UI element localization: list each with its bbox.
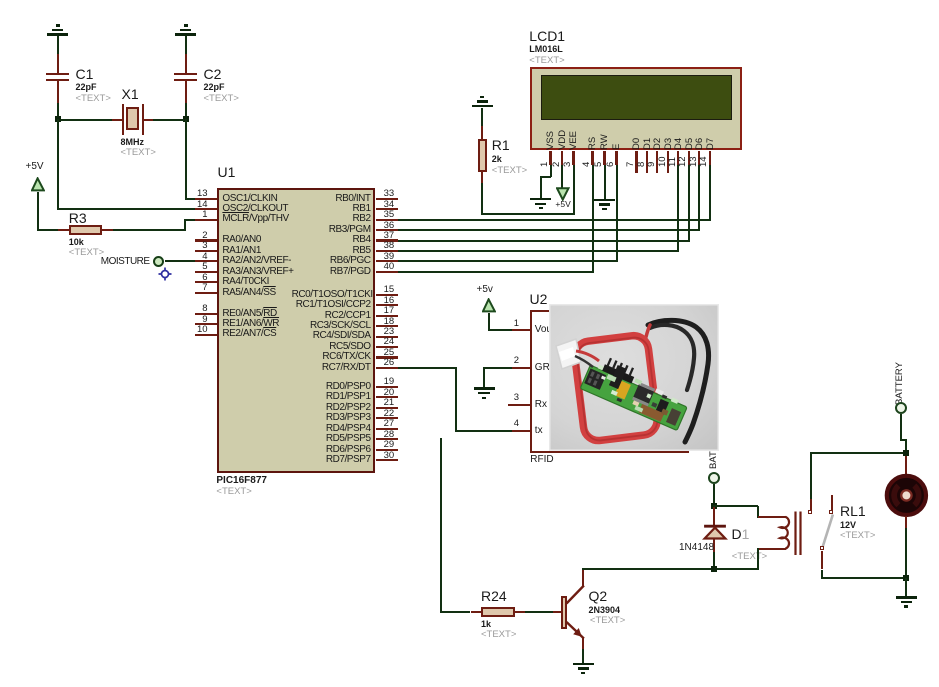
wire (698, 165, 700, 232)
lcd pin stubs and numbers (549, 151, 551, 165)
pin 35 (RB2) (376, 219, 398, 221)
pin 39 (RB6/PGC) (376, 260, 398, 262)
wire (185, 119, 187, 199)
terminal BAT (708, 451, 719, 469)
wire (688, 165, 690, 242)
wire (57, 208, 195, 210)
crystal X1 (112, 119, 122, 121)
wire (165, 260, 195, 262)
pin 25 (RC6/TX/CK) (376, 356, 398, 358)
wire (905, 578, 907, 596)
pin 6 (RA4/T0CKI) (195, 281, 217, 283)
resistor R1 (481, 126, 483, 139)
capacitor C1 (57, 54, 59, 73)
node (D1 top) (711, 503, 717, 509)
power +5V (26, 161, 44, 172)
rfid U2 pins (512, 329, 530, 331)
pin 9 (RE1/AN6/WR) (195, 323, 217, 325)
wire (757, 506, 759, 518)
pin 27 (RD4/PSP4) (376, 428, 398, 430)
node (C2/X1 junction) (183, 116, 189, 122)
wire (440, 438, 442, 613)
wire (713, 552, 715, 569)
terminal MOISTURE (101, 256, 150, 267)
capacitor C2 (185, 54, 187, 73)
pin 8 (RE0/AN5/RD) (195, 313, 217, 315)
resistor R24 (471, 611, 482, 613)
pin 29 (RD6/PSP6) (376, 449, 398, 451)
wire (57, 119, 59, 209)
wire (RB6 to LCD E) (398, 260, 618, 262)
wire (905, 440, 907, 453)
ground (LCD RW) (594, 199, 615, 201)
pin 24 (RC5/SDO) (376, 346, 398, 348)
wire (757, 548, 759, 570)
pin 21 (RD2/PSP2) (376, 407, 398, 409)
wire (113, 229, 187, 231)
wire (713, 505, 758, 507)
pin 30 (RD7/PSP7) (376, 459, 398, 461)
pin 22 (RD3/PSP3) (376, 417, 398, 419)
pin 5 (RA3/AN3/VREF+) (195, 271, 217, 273)
wire (61, 119, 112, 121)
wire (540, 176, 552, 178)
pin 26 (RC7/RX/DT) (376, 367, 398, 369)
wire (57, 103, 59, 119)
ground (U2 GND) (474, 387, 495, 389)
wire (184, 219, 195, 221)
pin 20 (RD1/PSP1) (376, 396, 398, 398)
ground (LCD VSS) (530, 198, 551, 200)
node (D1 bottom) (711, 566, 717, 572)
wire (185, 103, 187, 119)
rfid module photo (549, 304, 719, 451)
pin 40 (RB7/PGD) (376, 271, 398, 273)
wire (582, 649, 584, 663)
wire (184, 220, 186, 231)
wire (525, 611, 553, 613)
wire (483, 367, 512, 369)
power +5v (U2) (477, 284, 493, 295)
wire (900, 439, 907, 441)
wire (482, 213, 575, 215)
pin 17 (RC2/CCP1) (376, 315, 398, 317)
wire (550, 165, 552, 177)
wire (713, 484, 715, 505)
wire (collector to relay) (582, 568, 758, 570)
wire (185, 198, 195, 200)
pin 28 (RD5/PSP5) (376, 438, 398, 440)
transistor Q2 2N3904 (553, 611, 561, 613)
wire (RB3 to LCD D6) (398, 229, 700, 231)
wire (relay switch top) (810, 453, 812, 499)
pin 37 (RB4) (376, 239, 398, 241)
wire (821, 570, 823, 580)
wire (398, 367, 457, 369)
relay switch RL1 (810, 499, 812, 510)
pin 16 (RC1/T1OSI/CCP2) (376, 304, 398, 306)
rfid module U2 (530, 291, 548, 307)
wire (540, 177, 542, 198)
wire (905, 528, 907, 579)
ground (top of C2) (175, 33, 196, 35)
pin 1 (MCLR/Vpp/THV) (195, 219, 217, 221)
wire (37, 192, 39, 231)
terminal BATTERY (894, 362, 905, 405)
node (motor top) (903, 450, 909, 456)
wire (455, 430, 512, 432)
pin 19 (RD0/PSP0) (376, 386, 398, 388)
wire (481, 183, 483, 215)
pin 33 (RB0/INT) (376, 198, 398, 200)
wire (RB4 to LCD D5) (398, 240, 690, 242)
resistor R3 (58, 229, 69, 231)
pin 34 (RB1) (376, 208, 398, 210)
wire (821, 577, 907, 579)
pin 7 (RA5/AN4/SS) (195, 292, 217, 294)
pin 3 (RA1/AN1) (195, 250, 217, 252)
wire (573, 165, 575, 215)
motor/load (905, 456, 907, 475)
wire (481, 108, 483, 127)
node (C1/X1 junction) (55, 116, 61, 122)
mcu U1 PIC16F877 (218, 164, 236, 180)
pin 18 (RC3/SCK/SCL) (376, 325, 398, 327)
lcd LCD1 LM016L (529, 28, 565, 44)
wire (153, 119, 184, 121)
relay coil RL1 (758, 516, 786, 518)
ground (top of C1) (47, 33, 68, 35)
pin 23 (RC4/SDI/SDA) (376, 336, 398, 338)
wire (relay to motor node) (810, 452, 907, 454)
pin 13 (OSC1/CLKIN) (195, 198, 217, 200)
pin 36 (RB3/PGM) (376, 229, 398, 231)
wire (604, 165, 606, 199)
wire (RB2 to LCD D7) (398, 219, 711, 221)
wire (709, 165, 711, 221)
wire (488, 313, 490, 331)
wire (616, 165, 618, 263)
node (motor bottom) (903, 575, 909, 581)
wire (RB5 to LCD D4) (398, 250, 679, 252)
wire (455, 368, 457, 432)
pin 38 (RB5) (376, 250, 398, 252)
pin 14 (OSC2/CLKOUT) (195, 208, 217, 210)
wire (488, 329, 513, 331)
pin 15 (RC0/T1OSO/T1CKI) (376, 294, 398, 296)
power +5V (LCD VDD) (561, 165, 563, 189)
wire (483, 368, 485, 387)
wire (37, 229, 58, 231)
wire (677, 165, 679, 253)
ground (battery) (896, 596, 917, 598)
diode D1 1N4148 (713, 506, 715, 527)
pin 4 (RA2/AN2/VREF-) (195, 260, 217, 262)
lcd pin names (545, 130, 556, 149)
pin 2 (RA0/AN0) (195, 239, 217, 241)
ground (Q2 emitter) (573, 663, 594, 665)
origin marker (158, 267, 172, 281)
wire (900, 414, 902, 441)
ground (top of R1) (472, 105, 493, 107)
pin 10 (RE2/AN7/CS) (195, 334, 217, 336)
wire (RB7 to LCD RS) (398, 271, 594, 273)
wire (592, 165, 594, 273)
wire (440, 611, 470, 613)
